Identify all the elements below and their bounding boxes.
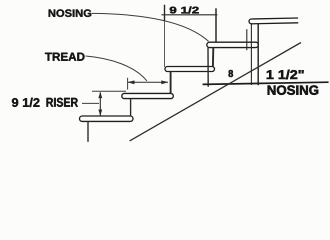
extension line from T4 nose down (8 dimension, left) [207, 48, 209, 87]
riser below tread T1 [87, 121, 89, 142]
extension line right (down to tread T4 top) [215, 8, 217, 42]
label 9 1/2 (riser height) [12, 98, 40, 107]
tread T5 (top, open right end) [249, 18, 298, 24]
label RISER [47, 98, 78, 107]
arrow left of tread depth dimension [128, 80, 135, 84]
extension line at tread T2 top level [92, 90, 126, 92]
arrow top of riser dimension [98, 92, 102, 99]
riser between T3 and T4 [212, 47, 214, 66]
extension line (8 dimension, right) [246, 29, 248, 50]
tread T2 [122, 93, 174, 98]
label NOSING (top left) [49, 9, 92, 17]
riser below tread T5 (extended down as extension line) [257, 24, 259, 85]
label 1 1/2 inch [267, 70, 304, 79]
label TREAD [45, 53, 84, 61]
riser between T2 and T3 [170, 71, 172, 93]
arrow right of tread depth dimension [161, 80, 168, 84]
extension line left, lower part (down to tread T3 nose) [164, 21, 166, 67]
leader from TREAD label to tread depth dimension [86, 56, 148, 81]
tread T3 [165, 67, 215, 72]
leader from RISER label to riser dimension [82, 102, 99, 104]
extension line from T5 nose down (1 1/2 dimension) [250, 24, 252, 85]
dimension line 9 1/2 [162, 14, 218, 16]
label 8 (riser dimension) [228, 70, 233, 77]
dimension label 9 1/2 (top) [170, 7, 199, 14]
leader from NOSING label to tread T4 nosing [92, 13, 209, 41]
tread T1 (bottom) [80, 116, 134, 121]
tread depth dimension line [128, 81, 168, 83]
extension line left of tread depth dimension [127, 78, 129, 90]
stringer diagonal line [130, 43, 301, 141]
label NOSING (right) [268, 85, 319, 94]
dimension line / underline for 8, 1 1/2 and NOSING [203, 82, 329, 84]
riser between T1 and T2 [130, 98, 132, 116]
arrow bottom of riser dimension [98, 110, 102, 117]
extension line left, upper tick (9 1/2 dimension) [164, 5, 166, 21]
riser height dimension line (vertical) [99, 93, 101, 116]
tread T4 [207, 42, 258, 47]
